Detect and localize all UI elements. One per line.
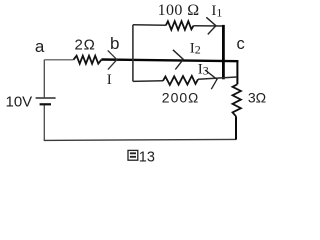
svg-text:200Ω: 200Ω	[162, 90, 198, 106]
svg-text:13: 13	[139, 149, 155, 165]
svg-text:b: b	[110, 34, 119, 53]
svg-text:2Ω: 2Ω	[75, 37, 96, 54]
svg-text:100 Ω: 100 Ω	[158, 2, 200, 19]
svg-text:10V: 10V	[6, 94, 33, 111]
svg-text:a: a	[35, 37, 45, 56]
svg-text:3Ω: 3Ω	[248, 90, 266, 106]
svg-text:c: c	[236, 35, 244, 53]
svg-text:I1: I1	[211, 3, 222, 19]
svg-text:I3: I3	[198, 61, 209, 77]
svg-text:I2: I2	[190, 40, 201, 56]
svg-text:I: I	[107, 72, 112, 88]
